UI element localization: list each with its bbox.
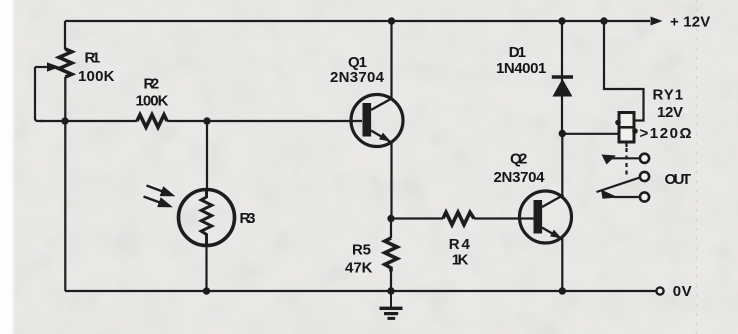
svg-text:2N3704: 2N3704	[494, 169, 546, 186]
svg-text:0V: 0V	[673, 283, 692, 300]
svg-text:12V: 12V	[657, 104, 683, 121]
svg-text:2N3704: 2N3704	[330, 69, 385, 86]
svg-text:R1: R1	[85, 50, 101, 67]
svg-text:+ 12V: + 12V	[670, 14, 710, 31]
svg-text:1K: 1K	[452, 252, 469, 269]
svg-text:OUT: OUT	[665, 171, 692, 188]
svg-text:R3: R3	[240, 210, 256, 227]
svg-text:R4: R4	[449, 236, 471, 253]
svg-text:>120Ω: >120Ω	[640, 125, 692, 142]
svg-text:Q2: Q2	[510, 151, 527, 168]
svg-text:R2: R2	[144, 76, 160, 93]
svg-text:100K: 100K	[78, 68, 115, 85]
svg-text:D1: D1	[509, 44, 526, 61]
svg-text:1N4001: 1N4001	[496, 60, 546, 77]
svg-text:R5: R5	[352, 242, 371, 259]
svg-text:100K: 100K	[136, 93, 169, 110]
svg-text:47K: 47K	[345, 260, 373, 277]
svg-text:RY1: RY1	[653, 87, 684, 104]
